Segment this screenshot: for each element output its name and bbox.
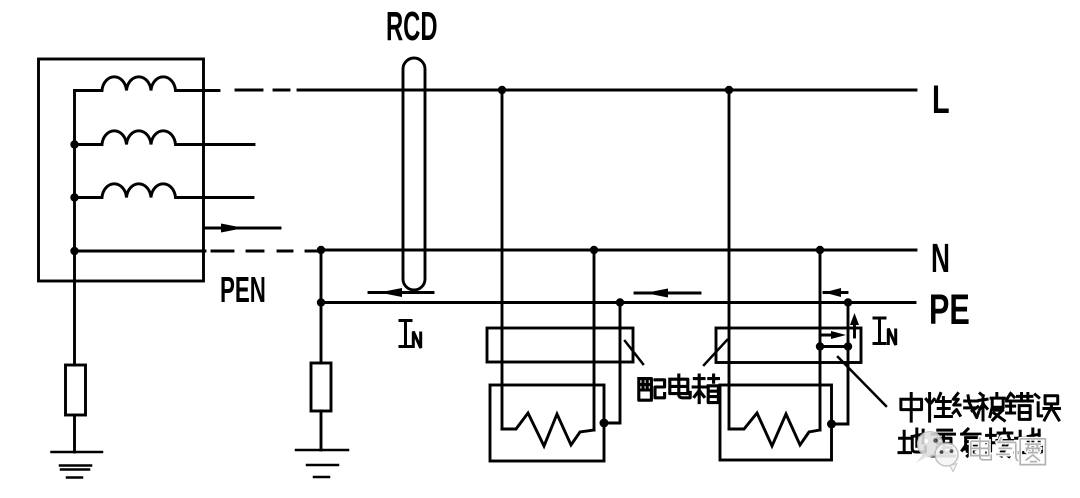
earth electrode at PEN split <box>296 450 348 477</box>
label 配电箱 char XIANG <box>693 375 718 403</box>
source earth resistor RA <box>66 365 86 415</box>
line PE protective conductor <box>321 301 915 304</box>
PEN conductor (dashed) <box>75 250 318 253</box>
svg-text:N: N <box>931 236 950 281</box>
fault label line2 char FU <box>962 429 981 457</box>
PE drop wire to load 1 <box>605 303 620 424</box>
appliance enclosure 2 <box>720 385 832 460</box>
node N tap 2 <box>816 246 824 254</box>
appliance enclosure 1 <box>490 385 604 461</box>
current arrow IN on PE middle <box>635 292 700 295</box>
up arrow IN in PE drop <box>853 322 856 337</box>
PE drop wire to load 2 <box>832 303 848 425</box>
wire RB to earth <box>320 411 323 450</box>
label 配电箱 char DIAN <box>670 375 690 398</box>
node L tap 1 <box>498 86 506 94</box>
current arrow IN on PE left <box>369 291 433 294</box>
node bus-PEN junction <box>70 247 78 255</box>
working earth resistor RB <box>311 363 331 411</box>
distribution box 2 <box>716 328 861 363</box>
svg-text:PEN: PEN <box>220 271 266 311</box>
fault label line2 char DI <box>899 429 925 453</box>
fault label line2 char JIE <box>987 429 1013 457</box>
fault label line2 char CHONG <box>932 430 954 456</box>
leader line to dist-box label left <box>625 341 643 364</box>
N drop wire to load 1 <box>593 250 596 430</box>
svg-text:RCD: RCD <box>386 5 437 50</box>
watermark char QUAN <box>1020 439 1045 465</box>
bond current arrow <box>822 334 838 337</box>
node PEN split to N <box>317 246 325 254</box>
illegal N-PE bond wire <box>820 345 848 348</box>
fault label line2 char DI2 <box>1015 429 1041 453</box>
earth electrode at source <box>52 452 103 478</box>
node bus-W3 junction <box>70 193 78 201</box>
L drop wire to load 1 <box>501 90 504 429</box>
L drop wire to load 2 <box>728 90 731 429</box>
line L phase conductor <box>236 89 916 92</box>
watermark char QI <box>996 437 1021 461</box>
watermark WeChat bubble large <box>916 432 943 464</box>
winding W2 phase B <box>75 131 255 145</box>
label IN right <box>874 318 885 344</box>
winding W3 phase C <box>75 184 254 198</box>
transformer neutral bus <box>73 91 76 366</box>
watermark WeChat bubble small <box>935 443 958 472</box>
distribution box 1 <box>487 328 633 362</box>
fault label line1 char BEI <box>979 394 1004 421</box>
label RCD <box>386 5 437 50</box>
node PE tap 2 <box>844 298 852 306</box>
label 配电箱 char PEI <box>639 379 665 401</box>
fault label line1 char ZHONG <box>901 394 922 422</box>
label PE <box>929 285 970 333</box>
fault label line1 char XIAN <box>953 394 978 418</box>
node N tap 1 <box>590 246 598 254</box>
current arrow IN on PE right <box>824 291 847 294</box>
transformer T1 enclosure <box>39 59 204 281</box>
label L <box>932 77 950 122</box>
label N <box>931 236 950 281</box>
heating element load 2 <box>729 413 820 446</box>
node L tap 2 <box>725 86 733 94</box>
fault label line1 char XING <box>926 394 951 422</box>
node bond at N <box>816 342 824 350</box>
winding W1 phase A <box>75 77 220 91</box>
node PE tap 1 <box>616 298 624 306</box>
current arrow at transformer output <box>205 227 280 230</box>
node PE branch <box>317 298 325 306</box>
RCD current transformer ring <box>403 58 425 290</box>
leader line to dist-box label right <box>704 340 727 365</box>
heating element load 1 <box>502 413 594 446</box>
node bond at PE <box>844 342 852 350</box>
line N neutral conductor <box>321 249 916 252</box>
N drop wire to load 2 <box>819 250 822 430</box>
watermark char DIAN <box>971 437 991 460</box>
node bus-W2 junction <box>70 140 78 148</box>
fault label line1 char CUO <box>1007 394 1033 420</box>
PEN split drop wire <box>320 250 323 363</box>
svg-text:L: L <box>932 77 950 122</box>
node PE to enclosure 2 <box>827 420 836 429</box>
node PE to enclosure 1 <box>600 419 609 428</box>
leader line to fault label <box>838 357 886 406</box>
wire RA to earth <box>73 415 76 452</box>
fault label line1 char WU <box>1035 395 1059 420</box>
svg-text:PE: PE <box>929 285 970 333</box>
label IN left <box>400 321 411 347</box>
label PEN <box>220 271 266 311</box>
